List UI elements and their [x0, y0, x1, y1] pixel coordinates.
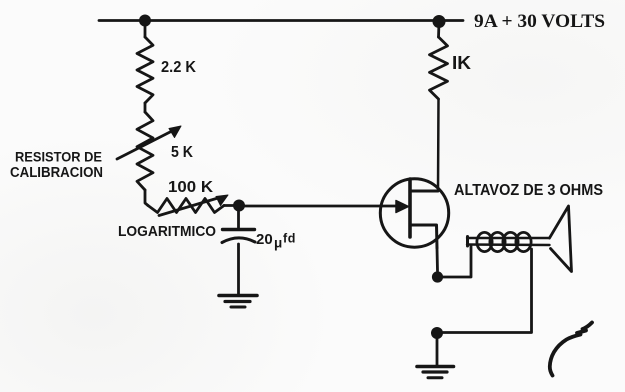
- resistor R1 2.2K: [137, 37, 153, 112]
- stray pen mark bottom right: [550, 323, 592, 376]
- speaker coil tube: [467, 237, 550, 247]
- potentiometer R3 100K wiper arrow: [159, 195, 228, 216]
- svg-text:ALTAVOZ DE 3 OHMS: ALTAVOZ DE 3 OHMS: [454, 182, 603, 199]
- svg-text:fd: fd: [283, 232, 296, 246]
- svg-text:9A + 30 VOLTS: 9A + 30 VOLTS: [474, 11, 605, 32]
- label 20 µfd: [256, 231, 296, 251]
- wire drain: 1K to transistor: [437, 99, 440, 191]
- svg-text:100 K: 100 K: [168, 179, 213, 196]
- speaker horn: [550, 206, 572, 272]
- svg-text:5 K: 5 K: [171, 144, 194, 161]
- wire dot C down to capacitor: [237, 206, 240, 228]
- wire dot E to ground 2: [436, 334, 439, 365]
- wire dot B down to resistor 1K: [437, 22, 440, 37]
- wire speaker coil right end down: [443, 249, 532, 333]
- wire gate: dot C to transistor: [245, 205, 396, 208]
- transistor Q1 gate arrowhead: [396, 201, 409, 213]
- label 9A + 30 VOLTS: [474, 11, 605, 32]
- svg-text:IK: IK: [452, 53, 471, 73]
- capacitor C1 plates: [222, 230, 255, 243]
- node junction dot B (rail / 1K): [433, 15, 446, 28]
- node junction dot D (source / speaker): [432, 271, 443, 282]
- ground 1: [219, 296, 257, 308]
- wire 5K bottom bend to 100K: [145, 190, 148, 206]
- wire capacitor to ground 1: [237, 244, 240, 295]
- svg-text:μ: μ: [274, 236, 282, 251]
- svg-text:LOGARITMICO: LOGARITMICO: [118, 223, 216, 240]
- wire source: transistor to dot D: [436, 248, 439, 271]
- svg-text:20: 20: [256, 231, 273, 248]
- label LOGARITMICO: [118, 223, 216, 240]
- label ALTAVOZ DE 3 OHMS: [454, 182, 603, 199]
- svg-text:RESISTOR DE: RESISTOR DE: [15, 149, 102, 165]
- label 5 K: [171, 144, 194, 161]
- ground 2: [417, 367, 454, 378]
- wire dot A to resistor 2.2K: [144, 21, 147, 37]
- svg-text:2.2 K: 2.2 K: [161, 59, 196, 76]
- transistor Q1 channel bar: [408, 179, 412, 237]
- potentiometer R3 100K body: [148, 199, 234, 213]
- potentiometer R2 5K wiper arrow: [117, 126, 181, 159]
- transistor Q1 source lead inside: [410, 225, 437, 248]
- label IK: [452, 53, 471, 73]
- label 100 K: [168, 179, 213, 196]
- speaker coil loops: [477, 232, 531, 251]
- label 2.2 K: [161, 59, 196, 76]
- transistor Q1 drain lead inside: [410, 190, 438, 193]
- resistor R4 1K: [430, 37, 448, 99]
- transistor Q1 body circle: [380, 179, 448, 247]
- potentiometer R2 5K body: [137, 112, 153, 190]
- wire dot D to speaker coil left end: [443, 246, 471, 277]
- svg-text:CALIBRACION: CALIBRACION: [10, 165, 103, 181]
- wire top power rail: [99, 19, 463, 22]
- node junction dot A (rail / 2.2K): [139, 15, 151, 27]
- node junction dot E (speaker return / ground): [431, 327, 443, 339]
- label RESISTOR DE CALIBRACION: [10, 149, 103, 182]
- node junction dot C (100K / gate / cap): [233, 200, 245, 212]
